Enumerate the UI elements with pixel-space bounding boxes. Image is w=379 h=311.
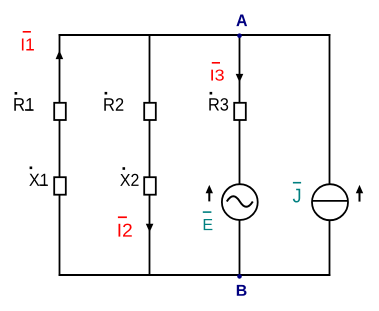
resistor R1 — [54, 103, 66, 120]
label R3 — [209, 92, 228, 111]
wire branch 2 — [149, 34, 151, 276]
label J — [293, 182, 301, 203]
reactance X1 — [54, 177, 66, 195]
current arrow I1 — [56, 50, 64, 59]
voltage source E — [222, 184, 258, 220]
wire branch 4 — [329, 34, 331, 276]
sine symbol of E — [227, 196, 253, 207]
label I1 — [22, 31, 34, 51]
reactance X2 — [144, 177, 156, 195]
label R2 — [104, 92, 123, 111]
resistor R3 — [234, 103, 246, 120]
current arrow I3 — [236, 74, 244, 83]
label node A — [236, 14, 247, 26]
current source J — [312, 184, 348, 220]
bar of current source J — [312, 200, 349, 202]
wire branch 3 — [239, 34, 241, 276]
node A — [237, 33, 242, 38]
label E — [203, 211, 213, 230]
label I2 — [118, 216, 132, 236]
source direction arrow of J — [356, 185, 363, 202]
resistor R2 — [144, 103, 156, 120]
current arrow I2 — [146, 224, 154, 233]
wire top bus — [59, 34, 331, 36]
label I3 — [211, 62, 223, 81]
wire bottom bus — [59, 274, 331, 276]
label X2 — [120, 167, 138, 186]
node B — [237, 274, 242, 279]
emf direction arrow of E — [206, 185, 213, 202]
label X1 — [29, 167, 48, 186]
wire branch 1 — [59, 34, 61, 276]
label R1 — [14, 92, 33, 111]
label node B — [237, 285, 247, 296]
